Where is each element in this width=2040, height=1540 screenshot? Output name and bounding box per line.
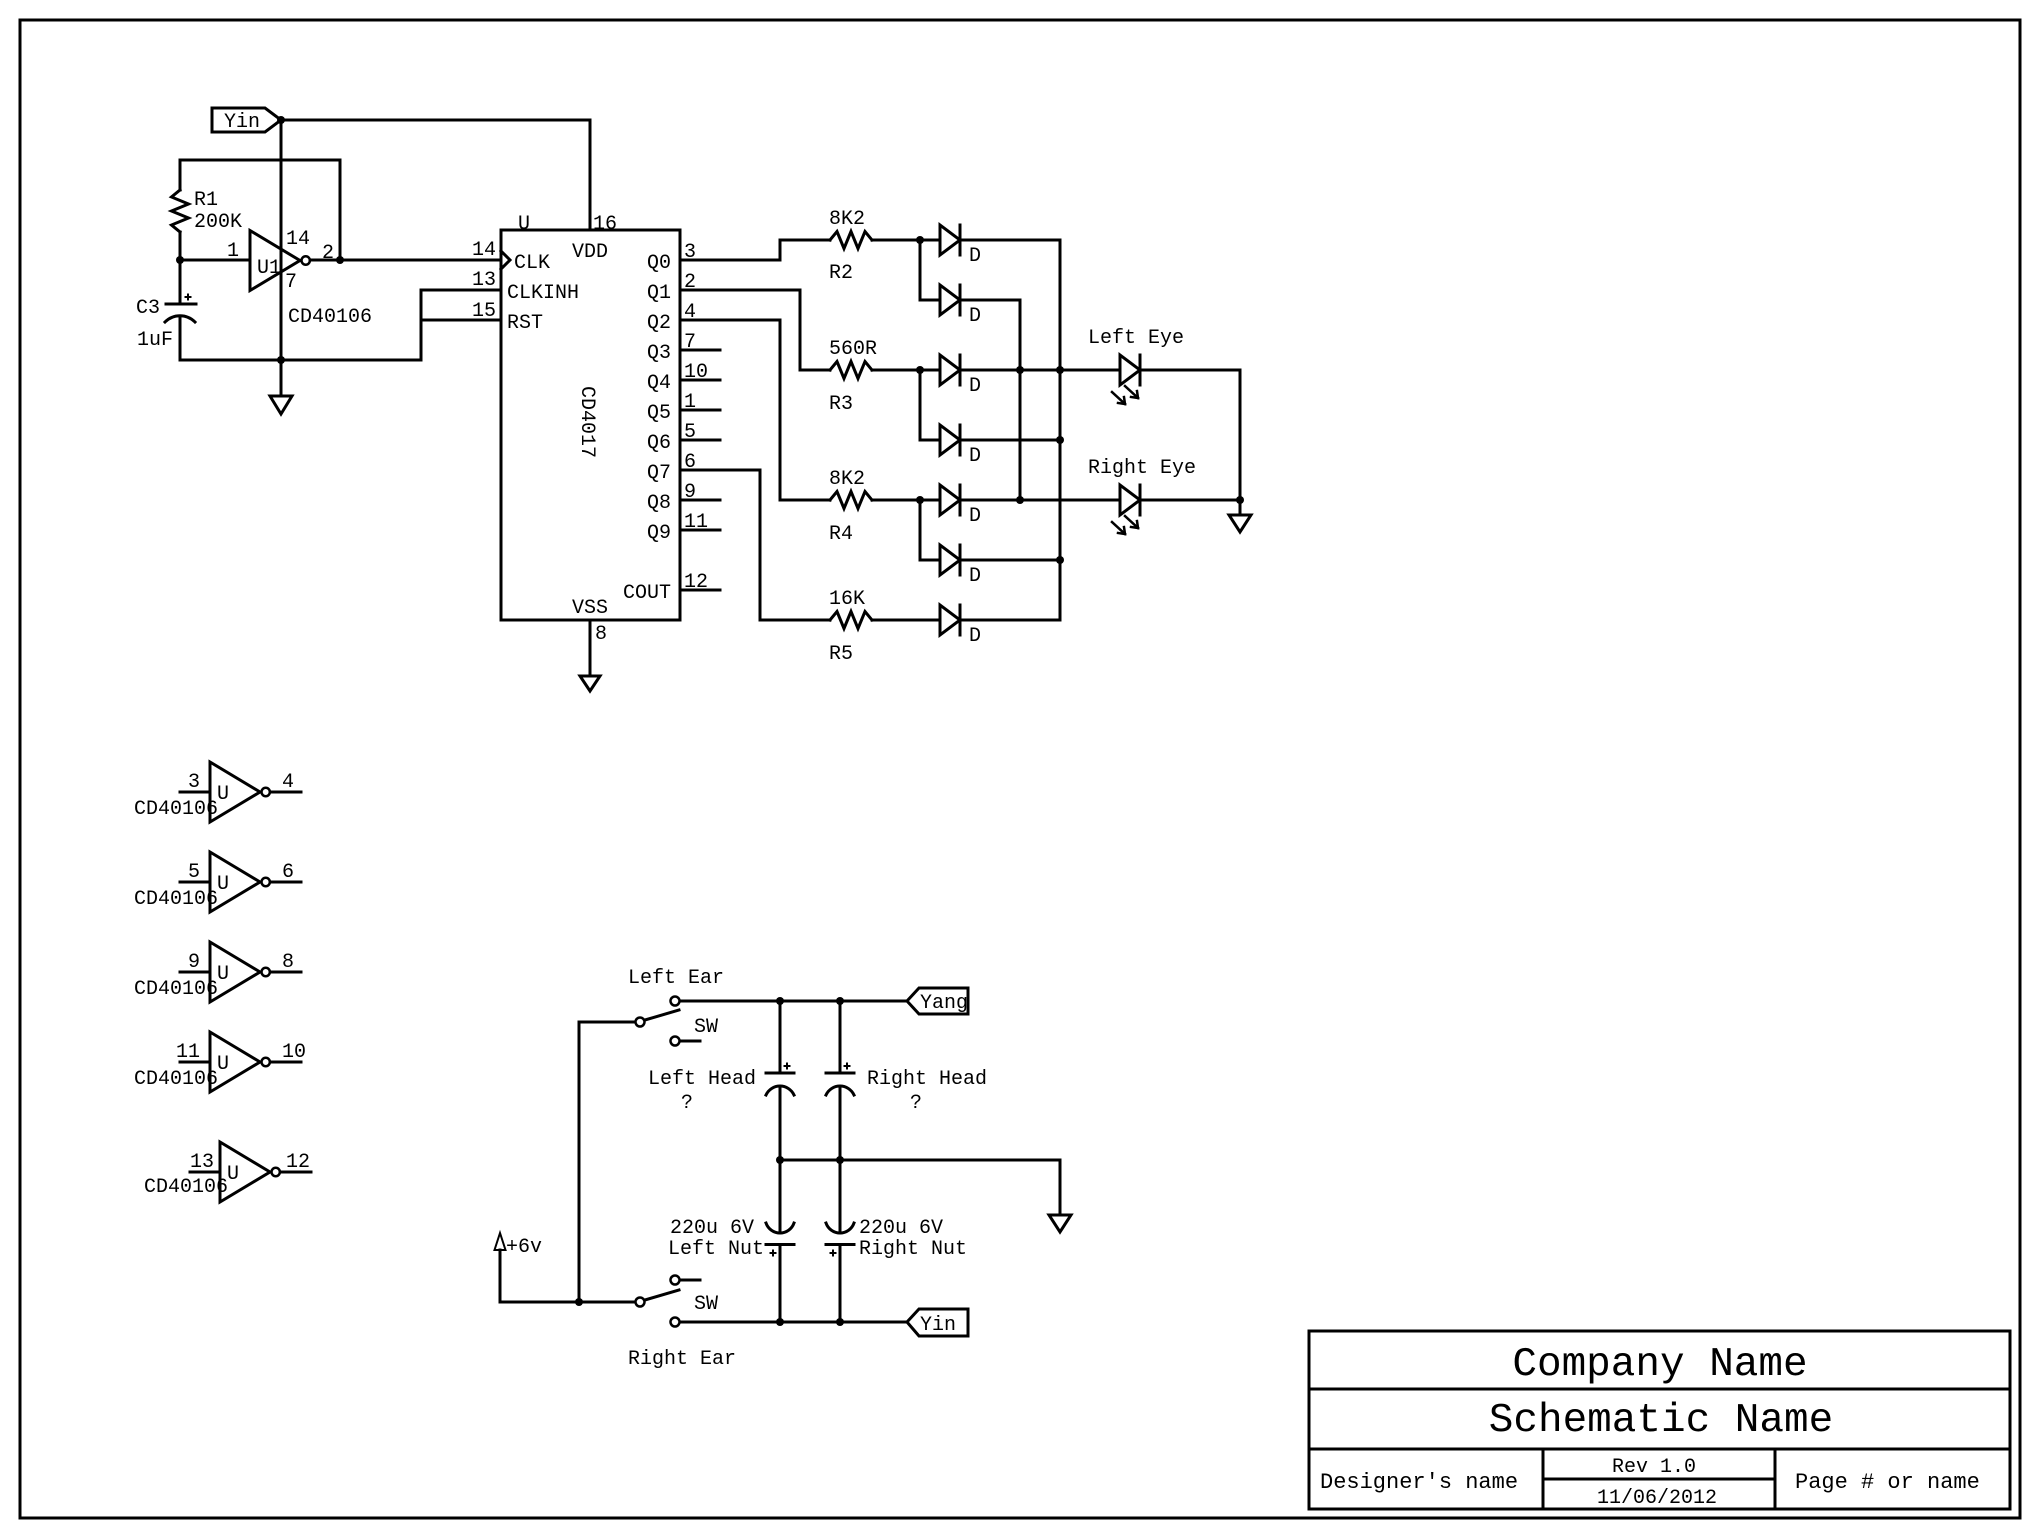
svg-text:200K: 200K bbox=[194, 211, 242, 234]
svg-text:D: D bbox=[969, 305, 981, 328]
wire D5 cathode to Right Eye LED bbox=[960, 499, 1120, 502]
pin stub Q6 bbox=[680, 439, 720, 442]
wire U1 output to CD4017 CLK pin bbox=[310, 259, 501, 262]
svg-text:Yin: Yin bbox=[224, 111, 260, 134]
svg-text:Left Ear: Left Ear bbox=[628, 967, 724, 990]
svg-text:U1: U1 bbox=[257, 257, 281, 280]
wire output stub bbox=[280, 1171, 311, 1174]
wire D6 anode lead bbox=[920, 559, 940, 562]
wire right rail vertical (Left Eye net) bbox=[1059, 240, 1062, 620]
wire D2 anode lead bbox=[920, 299, 940, 302]
wire D7 cathode bbox=[960, 619, 1060, 622]
wire anode drop pair 3 bbox=[919, 500, 922, 560]
wire +6v to bottom switch pivot bbox=[500, 1301, 635, 1304]
junction at Yin flag bbox=[277, 116, 285, 124]
ground symbol (LED return) bbox=[1239, 500, 1242, 515]
title block frame bbox=[1309, 1331, 2010, 1509]
svg-text:U: U bbox=[518, 213, 530, 236]
junction LED cathodes bbox=[1236, 496, 1244, 504]
svg-text:Q9: Q9 bbox=[647, 522, 671, 545]
svg-text:VSS: VSS bbox=[572, 597, 608, 620]
svg-text:R4: R4 bbox=[829, 523, 853, 546]
wire feedback right vertical to U1 output bbox=[339, 160, 342, 260]
pin stub Q9 bbox=[680, 529, 720, 532]
junction Yin row / Left Nut cap bbox=[776, 1318, 784, 1326]
wire Yin row (bottom) bbox=[680, 1321, 907, 1324]
svg-text:2: 2 bbox=[322, 242, 334, 265]
svg-text:+6v: +6v bbox=[506, 1236, 542, 1259]
svg-text:Yang: Yang bbox=[920, 992, 968, 1015]
svg-text:16: 16 bbox=[593, 213, 617, 236]
junction right rail row3 bbox=[1056, 366, 1064, 374]
junction Yang row / Left Head cap bbox=[776, 997, 784, 1005]
switch SW (Right Ear) bottom contact bbox=[671, 1318, 680, 1327]
wire Q1 to R3 bbox=[680, 290, 830, 370]
net flag Yin (top) bbox=[212, 108, 281, 132]
wire D2 cathode to inner rail bbox=[960, 299, 1020, 302]
pin stub Q3 bbox=[680, 349, 720, 352]
svg-text:CD40106: CD40106 bbox=[134, 978, 218, 1001]
resistor R1 200K bbox=[172, 190, 189, 232]
pin stub COUT bbox=[680, 589, 720, 592]
wire D6 cathode bbox=[960, 559, 1060, 562]
ground symbol (oscillator) bbox=[280, 360, 283, 396]
svg-text:3: 3 bbox=[188, 771, 200, 794]
svg-text:Right Ear: Right Ear bbox=[628, 1348, 736, 1371]
svg-text:VDD: VDD bbox=[572, 241, 608, 264]
pin 8 VSS wire bbox=[589, 620, 592, 676]
inverter U1 CD40106 bbox=[250, 231, 300, 291]
svg-text:Q6: Q6 bbox=[647, 432, 671, 455]
svg-text:D: D bbox=[969, 505, 981, 528]
junction +6v feed bbox=[575, 1298, 583, 1306]
svg-text:?: ? bbox=[681, 1092, 693, 1115]
wire Q7 to R5 bbox=[680, 470, 830, 620]
net flag Yin (bottom) bbox=[907, 1309, 968, 1336]
junction mid row left bbox=[776, 1156, 784, 1164]
svg-text:R1: R1 bbox=[194, 189, 218, 212]
svg-text:CLKINH: CLKINH bbox=[507, 282, 579, 305]
svg-text:Q4: Q4 bbox=[647, 372, 671, 395]
diode D1 bbox=[940, 225, 960, 255]
svg-text:11/06/2012: 11/06/2012 bbox=[1597, 1487, 1717, 1510]
diode D3 bbox=[940, 355, 960, 385]
switch SW (Right Ear) pivot bbox=[636, 1298, 645, 1307]
svg-text:Right Eye: Right Eye bbox=[1088, 457, 1196, 480]
IC U CD4017 body bbox=[501, 230, 680, 620]
capacitor Right Head (polarized) bbox=[839, 1001, 842, 1073]
capacitor C3 1uF (polarized) bbox=[179, 260, 182, 304]
pin stub Q5 bbox=[680, 409, 720, 412]
wire input stub bbox=[180, 971, 210, 974]
net flag Yang bbox=[907, 988, 968, 1014]
svg-text:U: U bbox=[217, 783, 229, 806]
diode D6 bbox=[940, 545, 960, 575]
svg-text:R2: R2 bbox=[829, 262, 853, 285]
power symbol +6v bbox=[495, 1233, 506, 1250]
wire anode drop pair 1 bbox=[919, 240, 922, 300]
svg-text:RST: RST bbox=[507, 312, 543, 335]
junction right rail row4 bbox=[1056, 436, 1064, 444]
wire mid row to ground bbox=[1059, 1160, 1062, 1215]
wire Yin vertical through U1 to ground bbox=[280, 120, 283, 360]
wire oscillator bottom (C3/U1 ground to RST) bbox=[179, 303, 182, 306]
wire Left Eye to common cathode corner bbox=[1140, 370, 1240, 500]
svg-text:220u 6V: 220u 6V bbox=[859, 1217, 943, 1240]
svg-text:CD40106: CD40106 bbox=[288, 306, 372, 329]
svg-text:14: 14 bbox=[286, 228, 310, 251]
wire R4 to diode pair 3 bbox=[872, 499, 940, 502]
wire D4 cathode bbox=[960, 439, 1060, 442]
svg-text:8K2: 8K2 bbox=[829, 468, 865, 491]
svg-text:Left Nut: Left Nut bbox=[668, 1238, 764, 1261]
svg-text:8: 8 bbox=[595, 623, 607, 646]
junction mid row right bbox=[836, 1156, 844, 1164]
clock input wedge on CLK pin bbox=[501, 251, 510, 269]
svg-text:560R: 560R bbox=[829, 338, 877, 361]
svg-text:U: U bbox=[217, 873, 229, 896]
svg-text:U: U bbox=[227, 1163, 239, 1186]
junction diode pair 3 anodes bbox=[916, 496, 924, 504]
svg-text:D: D bbox=[969, 375, 981, 398]
svg-text:Q2: Q2 bbox=[647, 312, 671, 335]
junction inner rail row5 bbox=[1016, 496, 1024, 504]
svg-text:CD40106: CD40106 bbox=[134, 798, 218, 821]
svg-text:Left Head: Left Head bbox=[648, 1068, 756, 1091]
wire D1 cathode to right rail bbox=[960, 239, 1060, 242]
svg-text:C3: C3 bbox=[136, 297, 160, 320]
junction at ground symbol bbox=[277, 356, 285, 364]
svg-text:14: 14 bbox=[472, 239, 496, 262]
diode D7 bbox=[940, 605, 960, 635]
wire output stub bbox=[270, 971, 301, 974]
svg-text:CD40106: CD40106 bbox=[144, 1176, 228, 1199]
wire input stub bbox=[180, 881, 210, 884]
junction U1 output / feedback bbox=[336, 256, 344, 264]
ground symbol (CD4017 VSS) bbox=[580, 676, 600, 691]
wire input stub bbox=[180, 1061, 210, 1064]
svg-text:CLK: CLK bbox=[514, 252, 550, 275]
switch SW (Left Ear) lever bbox=[645, 1010, 679, 1020]
svg-text:Right Nut: Right Nut bbox=[859, 1238, 967, 1261]
diode D4 bbox=[940, 425, 960, 455]
junction inner rail row3 bbox=[1016, 366, 1024, 374]
resistor R4 8K2 bbox=[830, 492, 872, 509]
ground symbol (capacitor mid rail) bbox=[1049, 1215, 1071, 1232]
junction Yin row / Right Nut cap bbox=[836, 1318, 844, 1326]
wire CLKINH/RST tie vertical bbox=[420, 290, 423, 360]
junction right rail row6 bbox=[1056, 556, 1064, 564]
diode D2 bbox=[940, 285, 960, 315]
svg-text:16K: 16K bbox=[829, 588, 865, 611]
switch SW (Left Ear) pivot bbox=[636, 1018, 645, 1027]
wire D4 anode lead bbox=[920, 439, 940, 442]
pin stub Q4 bbox=[680, 379, 720, 382]
wire R1/C3 node to U1 input pin 1 bbox=[180, 259, 250, 262]
svg-text:Left Eye: Left Eye bbox=[1088, 327, 1184, 350]
capacitor Left Head (polarized) bbox=[779, 1001, 782, 1073]
svg-text:Q8: Q8 bbox=[647, 492, 671, 515]
wire output stub bbox=[270, 881, 301, 884]
resistor R3 560R bbox=[830, 362, 872, 379]
capacitor Right Nut 220u 6V (polarized) bbox=[839, 1160, 842, 1233]
svg-text:COUT: COUT bbox=[623, 582, 671, 605]
node U1 input junction bbox=[176, 256, 184, 264]
svg-text:D: D bbox=[969, 565, 981, 588]
wire Q0 to R2 bbox=[680, 240, 830, 260]
svg-text:220u 6V: 220u 6V bbox=[670, 1217, 754, 1240]
wire input stub bbox=[190, 1171, 220, 1174]
wire R3 to diode pair 2 bbox=[872, 369, 940, 372]
svg-text:Page # or name: Page # or name bbox=[1795, 1470, 1980, 1495]
svg-text:9: 9 bbox=[188, 951, 200, 974]
svg-text:7: 7 bbox=[285, 271, 297, 294]
wire Yin flag to VDD corner (top) bbox=[281, 120, 590, 230]
switch SW (Right Ear) upper throw contact bbox=[671, 1276, 680, 1285]
svg-text:Q1: Q1 bbox=[647, 282, 671, 305]
svg-text:Schematic Name: Schematic Name bbox=[1489, 1398, 1833, 1444]
svg-text:Company Name: Company Name bbox=[1512, 1342, 1807, 1388]
wire feedback left vertical to R1 bbox=[179, 160, 182, 190]
svg-text:U: U bbox=[217, 1053, 229, 1076]
svg-text:D: D bbox=[969, 245, 981, 268]
diode D5 bbox=[940, 485, 960, 515]
switch SW (Right Ear) lever bbox=[645, 1290, 679, 1300]
svg-text:5: 5 bbox=[188, 861, 200, 884]
svg-text:1: 1 bbox=[227, 240, 239, 263]
svg-text:Q3: Q3 bbox=[647, 342, 671, 365]
svg-text:1uF: 1uF bbox=[137, 329, 173, 352]
svg-text:11: 11 bbox=[176, 1041, 200, 1064]
wire Yang row bbox=[680, 1000, 907, 1003]
wire D3 cathode to Left Eye LED bbox=[960, 369, 1120, 372]
svg-text:Designer's name: Designer's name bbox=[1320, 1470, 1518, 1495]
svg-text:CD4017: CD4017 bbox=[575, 386, 598, 458]
wire feedback loop top bbox=[180, 159, 340, 162]
svg-text:SW: SW bbox=[694, 1016, 718, 1039]
LED Left Eye bbox=[1120, 355, 1140, 385]
wire mid ground row bbox=[780, 1159, 1060, 1162]
resistor R5 16K bbox=[830, 612, 872, 629]
svg-text:CD40106: CD40106 bbox=[134, 888, 218, 911]
svg-text:Q5: Q5 bbox=[647, 402, 671, 425]
svg-text:D: D bbox=[969, 445, 981, 468]
svg-text:CD40106: CD40106 bbox=[134, 1068, 218, 1091]
wire input stub bbox=[180, 791, 210, 794]
wire inner rail vertical bbox=[1019, 300, 1022, 500]
wire R5 to diode D7 bbox=[872, 619, 940, 622]
svg-text:13: 13 bbox=[472, 269, 496, 292]
wire output stub bbox=[270, 791, 301, 794]
svg-text:Q7: Q7 bbox=[647, 462, 671, 485]
svg-text:U: U bbox=[217, 963, 229, 986]
wire to CLKINH pin 13 bbox=[421, 289, 501, 292]
svg-text:Yin: Yin bbox=[920, 1314, 956, 1337]
junction diode pair 2 anodes bbox=[916, 366, 924, 374]
junction diode pair 1 anodes bbox=[916, 236, 924, 244]
wire lower throw stub (top switch) bbox=[680, 1040, 700, 1043]
wire to RST pin 15 bbox=[421, 319, 501, 322]
svg-text:R5: R5 bbox=[829, 643, 853, 666]
wire Q2 to R4 bbox=[680, 320, 830, 500]
resistor R2 8K2 bbox=[830, 232, 872, 249]
svg-text:?: ? bbox=[910, 1092, 922, 1115]
svg-text:D: D bbox=[969, 625, 981, 648]
wire output stub bbox=[270, 1061, 301, 1064]
switch SW (Left Ear) top contact bbox=[671, 997, 680, 1006]
svg-text:Right Head: Right Head bbox=[867, 1068, 987, 1091]
svg-text:SW: SW bbox=[694, 1293, 718, 1316]
wire anode drop pair 2 bbox=[919, 370, 922, 440]
svg-text:Q0: Q0 bbox=[647, 252, 671, 275]
svg-text:8K2: 8K2 bbox=[829, 208, 865, 231]
capacitor Left Nut 220u 6V (polarized) bbox=[779, 1160, 782, 1233]
svg-text:R3: R3 bbox=[829, 393, 853, 416]
junction Yang row / Right Head cap bbox=[836, 997, 844, 1005]
wire switch commons vertical bbox=[579, 1022, 635, 1302]
svg-text:Rev 1.0: Rev 1.0 bbox=[1612, 1456, 1696, 1479]
LED Right Eye bbox=[1120, 485, 1140, 515]
wire R2 to diode pair 1 bbox=[872, 239, 940, 242]
svg-text:13: 13 bbox=[190, 1151, 214, 1174]
wire upper throw stub (bottom switch) bbox=[680, 1279, 700, 1282]
pin stub Q8 bbox=[680, 499, 720, 502]
wire Right Eye to ground node bbox=[1140, 499, 1240, 502]
svg-text:15: 15 bbox=[472, 300, 496, 323]
switch SW (Left Ear) lower throw contact bbox=[671, 1037, 680, 1046]
